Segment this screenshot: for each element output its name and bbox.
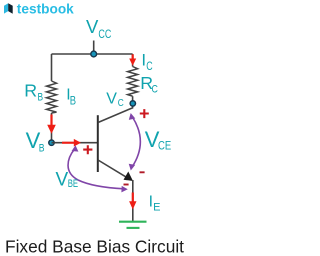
wire left branch upper	[51, 54, 53, 81]
node Vcc	[91, 51, 97, 57]
svg-text:C: C	[118, 98, 124, 109]
wire right branch top	[132, 54, 134, 67]
wire emitter down	[132, 180, 134, 221]
svg-text:B: B	[38, 92, 44, 104]
current arrow base (red, right)	[62, 139, 81, 147]
transistor Q1 base bar	[97, 115, 99, 172]
minus near collector-emitter	[140, 171, 145, 173]
svg-text:E: E	[153, 202, 160, 214]
transistor collector line	[98, 103, 133, 122]
node VB	[49, 140, 54, 145]
svg-text:B: B	[70, 94, 76, 108]
ground	[119, 222, 147, 228]
VCE measurement arc (purple, double arrow)	[132, 117, 140, 167]
testbook logo book icon	[4, 3, 13, 14]
plus sign at base	[83, 145, 92, 154]
current arrow IC (red, down)	[129, 54, 136, 66]
wire Vcc stub	[93, 41, 95, 55]
wire to VC node	[132, 96, 134, 103]
svg-text:testbook: testbook	[17, 1, 74, 17]
current arrow IB (red, down)	[47, 115, 56, 134]
svg-text:CC: CC	[98, 29, 111, 41]
wire top rail	[52, 53, 133, 55]
svg-text:CE: CE	[158, 139, 171, 153]
current arrow IE (red, down)	[129, 193, 136, 210]
svg-text:V: V	[56, 169, 69, 190]
VBE measurement arc (purple, double arrow)	[68, 149, 124, 189]
svg-text:V: V	[106, 91, 117, 108]
minus near base-emitter	[124, 184, 129, 186]
svg-text:C: C	[146, 59, 153, 73]
node VC	[130, 101, 135, 106]
svg-text:BE: BE	[68, 178, 78, 190]
svg-text:Fixed Base Bias Circuit: Fixed Base Bias Circuit	[5, 236, 184, 256]
svg-text:R: R	[24, 81, 37, 101]
svg-text:C: C	[152, 84, 158, 96]
plus sign at collector	[140, 109, 149, 118]
transistor emitter line with arrowhead	[98, 160, 129, 179]
svg-text:V: V	[86, 16, 99, 37]
resistor RB	[47, 81, 57, 113]
resistor RC	[128, 67, 138, 97]
wire base	[52, 142, 98, 144]
wire left branch lower	[51, 113, 53, 140]
svg-text:B: B	[39, 142, 45, 154]
